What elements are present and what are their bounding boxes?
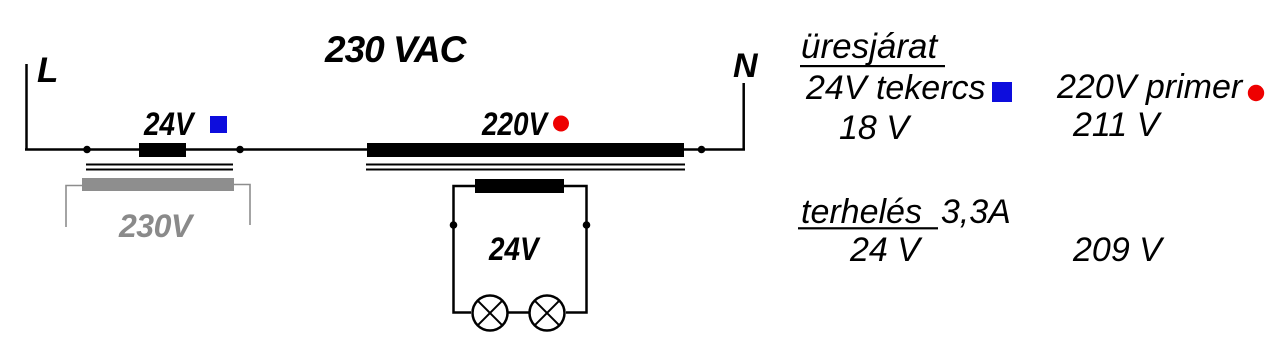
underline terhelés	[798, 227, 938, 229]
winding 24V series (black bar)	[139, 143, 186, 157]
label 24V (secondary winding)	[489, 233, 539, 265]
value 18 V	[839, 111, 909, 145]
bracket lead left of 230V winding	[66, 186, 82, 228]
label 220V (primary winding)	[482, 108, 547, 140]
marker blue square (24V winding)	[210, 116, 227, 133]
legend title terhelés 3,3A	[801, 195, 1011, 229]
wire L vertical	[25, 64, 28, 150]
legend title üresjárat	[801, 29, 937, 64]
value 211 V	[1073, 108, 1159, 142]
lamp E2	[530, 296, 565, 331]
winding 230V gray bar	[82, 178, 234, 191]
core small transformer line 2	[86, 169, 233, 171]
wire secondary left	[454, 186, 476, 313]
label 24V (series winding)	[144, 108, 194, 140]
value 24 V	[850, 233, 920, 267]
legend 24V tekercs	[806, 71, 986, 105]
junction dot E	[583, 221, 591, 229]
node L label	[37, 53, 58, 88]
core big transformer line 1	[366, 164, 685, 166]
junction dot B	[236, 146, 244, 154]
wire main horizontal L to 220V winding	[25, 148, 370, 151]
node N label	[733, 49, 758, 83]
title 230 VAC	[325, 31, 465, 68]
marker red dot (220V winding)	[553, 116, 569, 132]
junction dot D	[450, 221, 458, 229]
wire secondary right	[564, 186, 587, 313]
wire between lamps	[506, 311, 531, 314]
wire 220V winding to N corner	[682, 148, 745, 151]
core small transformer line 1	[86, 164, 233, 166]
underline üresjárat	[800, 65, 945, 67]
wire N vertical	[742, 83, 745, 151]
label 230V (gray winding)	[119, 210, 192, 242]
winding 220V primary (black bar)	[367, 143, 684, 157]
winding 24V secondary (black bar)	[475, 179, 564, 193]
junction dot A	[83, 146, 91, 154]
value 209 V	[1073, 233, 1162, 267]
core big transformer line 2	[366, 169, 685, 171]
marker blue square (legend)	[992, 82, 1012, 102]
bracket lead right of 230V winding	[234, 185, 250, 226]
lamp E1	[473, 296, 508, 331]
legend 220V primer	[1057, 70, 1242, 104]
junction dot C	[698, 146, 706, 154]
marker red dot (legend)	[1248, 85, 1264, 101]
